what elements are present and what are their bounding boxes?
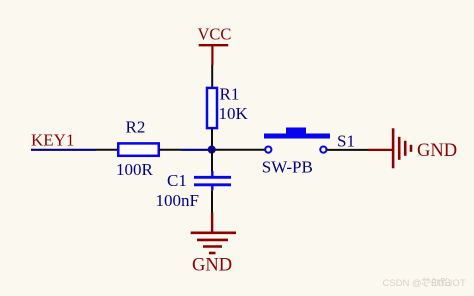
switch button (286, 128, 306, 134)
svg-text:100R: 100R (116, 160, 154, 179)
ground symbol (bottom) (191, 213, 236, 254)
wire node A to switch pin S1.1 (212, 149, 265, 151)
svg-text:CSDN @: CSDN @ (383, 278, 422, 289)
capacitor C1 (194, 171, 231, 191)
pin R2.1 (96, 149, 118, 151)
junction node A (208, 146, 216, 154)
svg-text:SW-PB: SW-PB (262, 158, 313, 177)
svg-text:S1: S1 (337, 132, 355, 151)
svg-text:100nF: 100nF (156, 191, 199, 210)
resistor R1 (207, 88, 217, 128)
wire R1 pin 2 to node A (211, 129, 213, 151)
switch pin circle right (320, 147, 326, 153)
svg-text:VCC: VCC (198, 25, 232, 44)
resistor R2 (118, 143, 159, 155)
wire R2 to node A (181, 149, 212, 151)
switch S1 (SW-PB) (264, 128, 330, 153)
svg-text:C1: C1 (167, 171, 187, 190)
pin R2.2 (160, 149, 182, 151)
power port VCC (198, 25, 232, 66)
switch pin circle left (265, 147, 271, 153)
svg-text:R1: R1 (220, 85, 240, 104)
svg-text:GND: GND (192, 256, 232, 276)
watermark CSDN @芯航路IOT (383, 278, 466, 289)
wire node A down to C1 (211, 150, 213, 172)
svg-text:R2: R2 (126, 118, 146, 137)
svg-text:10K: 10K (219, 104, 249, 123)
wire VCC stem to R1 pin 1 (211, 65, 213, 88)
wire C1 to ground (211, 190, 213, 213)
svg-text:GND: GND (417, 141, 457, 161)
svg-text:KEY1: KEY1 (31, 131, 74, 150)
wire S1 pin to right ground (327, 149, 368, 151)
wire KEY1 to R2 pin 1 (31, 149, 96, 151)
switch bar (264, 134, 330, 139)
ground symbol (right, rotated) (393, 128, 411, 168)
svg-text:IOT: IOT (450, 278, 466, 289)
ground stub wire (dark red) (368, 149, 393, 151)
